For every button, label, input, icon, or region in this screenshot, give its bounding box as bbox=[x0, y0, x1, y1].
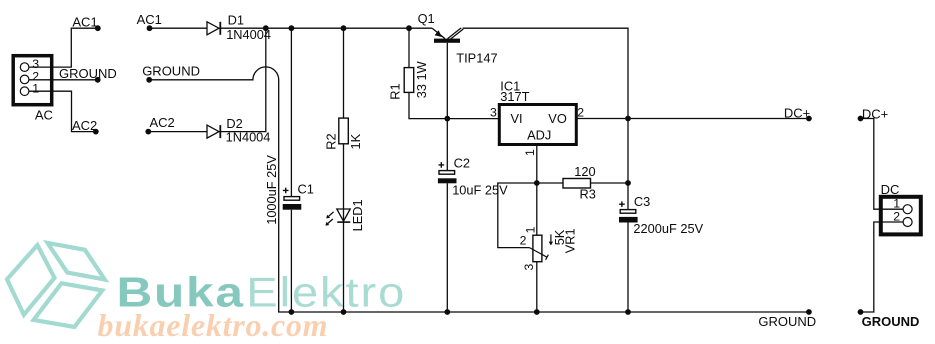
wire R1 bottom to VI node bbox=[409, 92, 499, 118]
svg-text:GROUND: GROUND bbox=[59, 66, 117, 81]
resistor R3 bbox=[563, 179, 591, 189]
junction D2 top rail bbox=[263, 25, 269, 31]
svg-text:1N4004: 1N4004 bbox=[226, 130, 271, 145]
svg-text:2200uF 25V: 2200uF 25V bbox=[633, 221, 703, 236]
wire AC2 pin1 to stub bbox=[29, 91, 96, 131]
svg-text:AC1: AC1 bbox=[72, 14, 97, 29]
svg-text:Q1: Q1 bbox=[418, 11, 435, 26]
capacitor C1 bbox=[283, 188, 302, 210]
wire C3 bottom bbox=[627, 223, 629, 313]
junction ADJ node bbox=[534, 180, 540, 186]
node AC1 stub dot right bbox=[147, 25, 153, 31]
LED LED1 bbox=[328, 209, 351, 224]
node DC+ dot right bbox=[858, 116, 864, 122]
capacitor C3 bbox=[619, 201, 638, 222]
wire C1 bottom bbox=[290, 210, 292, 312]
wire R3 to C3 node bbox=[591, 182, 629, 184]
svg-text:AC1: AC1 bbox=[137, 12, 162, 27]
transistor Q1 bbox=[432, 28, 463, 43]
junction C1 ground bbox=[289, 309, 295, 315]
svg-text:3: 3 bbox=[522, 264, 536, 271]
svg-text:VR1: VR1 bbox=[562, 228, 577, 253]
junction C2 ground bbox=[444, 309, 450, 315]
wire GROUND stub with hop over D2 wire bbox=[149, 67, 809, 312]
node GROUND dot bottom right bbox=[858, 309, 864, 315]
junction base node bbox=[444, 116, 450, 122]
wire C2 bottom bbox=[446, 183, 448, 312]
capacitor C2 bbox=[438, 162, 457, 183]
svg-text:AC: AC bbox=[35, 108, 53, 123]
wire ADJ node to R3 bbox=[537, 182, 563, 184]
svg-text:GROUND: GROUND bbox=[758, 314, 816, 329]
wire Q1 collector rail right bbox=[463, 28, 628, 209]
wire AC1 stub to D1 bbox=[150, 27, 208, 29]
node GROUND stub dot mid bbox=[146, 77, 152, 83]
node AC2 stub dot right bbox=[145, 129, 151, 135]
svg-text:VO: VO bbox=[548, 111, 567, 126]
svg-text:R2: R2 bbox=[323, 133, 338, 149]
potentiometer VR1 bbox=[530, 235, 549, 262]
junction R1 top rail bbox=[406, 25, 412, 31]
connector J1 pin circles bbox=[20, 63, 29, 72]
svg-text:3: 3 bbox=[490, 106, 497, 120]
svg-text:ADJ: ADJ bbox=[527, 127, 551, 142]
junction VR1 ground bbox=[534, 309, 540, 315]
diode D1 bbox=[207, 22, 220, 35]
svg-text:GROUND: GROUND bbox=[142, 64, 200, 79]
svg-text:1: 1 bbox=[523, 226, 537, 233]
wire R1 top bbox=[408, 28, 410, 67]
wire R2 to LED1 bbox=[343, 144, 345, 222]
svg-text:317T: 317T bbox=[500, 89, 529, 104]
svg-text:1K: 1K bbox=[348, 133, 363, 149]
wire VO to DC+ bbox=[576, 118, 809, 120]
junction C3 ground bbox=[625, 309, 631, 315]
svg-text:C1: C1 bbox=[298, 182, 314, 197]
wire GROUND pin2 to stub bbox=[29, 79, 98, 81]
diode D2 bbox=[207, 125, 220, 138]
svg-text:1: 1 bbox=[523, 149, 537, 156]
svg-text:C3: C3 bbox=[634, 194, 650, 209]
wire Q1 base node to C2 bbox=[446, 119, 448, 171]
wire VR1 pin3 to ground bbox=[536, 262, 538, 312]
node AC1 stub dot bbox=[95, 25, 101, 31]
svg-text:120: 120 bbox=[574, 164, 595, 179]
svg-text:DC+: DC+ bbox=[862, 106, 888, 121]
svg-text:DC+: DC+ bbox=[784, 106, 810, 121]
logo cube bbox=[7, 243, 105, 327]
wire D2 cathode up to top rail bbox=[220, 28, 265, 131]
node AC2 stub dot left bbox=[93, 129, 99, 135]
node GROUND stub dot left bbox=[95, 77, 101, 83]
wire R2 top bbox=[343, 28, 345, 118]
svg-text:1: 1 bbox=[32, 82, 39, 96]
svg-text:VI: VI bbox=[511, 111, 523, 126]
svg-text:TIP147: TIP147 bbox=[456, 51, 497, 66]
svg-text:10uF 25V: 10uF 25V bbox=[452, 183, 508, 198]
junction LED1 ground bbox=[341, 309, 347, 315]
wire Q1 base down bbox=[446, 43, 448, 119]
wire ADJ down bbox=[536, 145, 538, 184]
wire AC2 stub to D2 bbox=[148, 131, 207, 133]
potentiometer VR1 adjust arrow bbox=[549, 234, 553, 245]
junction R3 C3 node bbox=[625, 180, 631, 186]
svg-text:2: 2 bbox=[893, 209, 900, 223]
svg-text:D1: D1 bbox=[228, 12, 244, 27]
LED LED1 arrowheads bbox=[325, 215, 330, 226]
junction R2 top rail bbox=[341, 25, 347, 31]
wire wiper loop bbox=[498, 183, 537, 248]
svg-text:1000uF 25V: 1000uF 25V bbox=[264, 155, 279, 225]
resistor R1 bbox=[404, 68, 414, 93]
svg-text:AC2: AC2 bbox=[150, 115, 175, 130]
wire DC+ right stub down bbox=[861, 119, 904, 210]
svg-text:DC: DC bbox=[881, 182, 900, 197]
svg-text:LED1: LED1 bbox=[350, 199, 365, 231]
node DC+ dot left bbox=[806, 116, 812, 122]
junction VO rail bbox=[625, 116, 631, 122]
wire AC1 pin3 to stub bbox=[29, 28, 98, 67]
svg-text:2: 2 bbox=[520, 234, 527, 248]
svg-text:33 1W: 33 1W bbox=[414, 60, 429, 98]
regulator IC1 box bbox=[499, 105, 576, 145]
wire DC pin2 to ground stub bbox=[861, 222, 904, 312]
resistor R2 bbox=[339, 118, 349, 144]
svg-text:C2: C2 bbox=[454, 156, 470, 171]
wire C1 top bbox=[290, 28, 292, 196]
junction C1 top rail bbox=[289, 25, 295, 31]
svg-text:R3: R3 bbox=[580, 187, 596, 202]
svg-text:GROUND: GROUND bbox=[862, 314, 920, 329]
connector J2 DC box bbox=[881, 197, 921, 235]
svg-text:AC2: AC2 bbox=[72, 118, 97, 133]
svg-text:2: 2 bbox=[577, 106, 584, 120]
connector J2 pin circles bbox=[903, 205, 912, 214]
svg-text:R1: R1 bbox=[387, 83, 402, 99]
wire top rail D1 to Q1 bbox=[220, 27, 432, 29]
wire LED1 to ground rail bbox=[343, 222, 345, 312]
svg-text:1N4004: 1N4004 bbox=[226, 27, 271, 42]
connector J1 AC box bbox=[13, 56, 52, 105]
node GROUND dot bottom left bbox=[806, 309, 812, 315]
wire VR1 pin1 bbox=[536, 183, 538, 235]
